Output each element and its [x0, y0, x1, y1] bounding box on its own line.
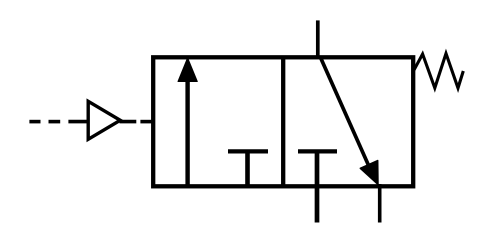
valve body outline — [153, 57, 413, 186]
blocked port (left box) — [228, 151, 268, 186]
flow path arrow (left box) — [178, 58, 197, 186]
pilot actuator triangle — [88, 101, 120, 139]
flow path arrow (right box, diagonal) — [321, 58, 379, 185]
port 2 exhaust stem (bottom left of right box) — [315, 151, 320, 222]
position divider — [281, 57, 285, 186]
port 3 (bottom right) — [378, 184, 382, 223]
spring return — [413, 54, 463, 89]
port 1 (top) — [316, 20, 320, 59]
blocked port (right box) — [298, 149, 337, 153]
pilot line (dashed) — [29, 120, 153, 124]
